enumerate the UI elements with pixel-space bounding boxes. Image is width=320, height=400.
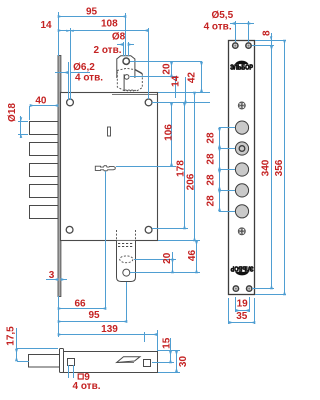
- bolt 4: [30, 185, 59, 198]
- bottom hole right: [247, 286, 252, 291]
- dim 3 arrows: [46, 279, 58, 281]
- svg-text:28: 28: [206, 132, 217, 144]
- ext line from bar top: [58, 12, 60, 56]
- dim 20 (crank): [171, 62, 173, 77]
- svg-text:ЭЛЬБОР: ЭЛЬБОР: [230, 64, 253, 71]
- plate circle 4: [235, 184, 248, 197]
- top hole right: [246, 43, 251, 48]
- dim 35 bottom: [228, 298, 230, 324]
- logo bottom (rotated): [230, 265, 253, 276]
- svg-text:139: 139: [101, 324, 118, 335]
- ext line to top-right screw: [148, 28, 150, 99]
- dim 356 line: [284, 40, 286, 295]
- side plate top ext: [17, 348, 58, 350]
- d8 hole edge lines: [123, 42, 125, 56]
- top screw ext right: [152, 102, 210, 104]
- bolt 2: [30, 143, 59, 156]
- svg-text:14: 14: [171, 75, 182, 87]
- plate circle 3: [235, 163, 248, 176]
- side bolt centre ext: [17, 361, 29, 363]
- plate circle 1: [235, 121, 248, 134]
- svg-text:356: 356: [274, 159, 285, 176]
- body inner top line: [112, 94, 158, 96]
- svg-text:15: 15: [162, 337, 173, 349]
- label square9: [78, 372, 90, 383]
- keyhole profile: [95, 166, 115, 171]
- dim 66: [58, 308, 106, 310]
- dim 30 side: [176, 351, 178, 372]
- svg-text:95: 95: [88, 310, 100, 321]
- svg-text:95: 95: [86, 6, 98, 17]
- svg-text:106: 106: [163, 124, 174, 141]
- dim 178: [184, 103, 186, 229]
- svg-text:30: 30: [178, 356, 189, 368]
- dim 14 vertical: [185, 77, 187, 103]
- chain ticks: [219, 127, 235, 129]
- svg-text:20: 20: [162, 252, 173, 264]
- svg-text:2 отв.: 2 отв.: [93, 45, 121, 56]
- screw top: [238, 102, 245, 109]
- bottom screw ext right: [152, 228, 188, 230]
- keyhole ext down: [105, 171, 107, 309]
- screw hole bottom-left: [66, 226, 73, 233]
- svg-text:108: 108: [101, 19, 118, 30]
- bottom hole left: [233, 286, 238, 291]
- dim 106: [171, 103, 173, 166]
- side exts right: [158, 350, 180, 352]
- dim 28 chain line: [219, 128, 221, 148]
- svg-text:8: 8: [261, 30, 272, 36]
- side body right ext up: [157, 330, 159, 351]
- square hole 2: [144, 360, 151, 367]
- square hole 1: [68, 359, 75, 366]
- faceplate bottom edge ext: [255, 294, 286, 296]
- svg-text:17,5: 17,5: [6, 326, 17, 346]
- latch oval ext: [134, 259, 176, 261]
- svg-text:340: 340: [261, 159, 272, 176]
- square hole ext lines: [68, 365, 70, 378]
- side bolt: [29, 355, 60, 368]
- screw bottom: [238, 228, 245, 235]
- dim 8 + dim 340 line: [271, 33, 273, 289]
- svg-text:4 отв.: 4 отв.: [204, 21, 232, 32]
- dim 139: [58, 334, 157, 336]
- svg-text:19: 19: [237, 298, 249, 309]
- bolt 5: [30, 206, 59, 219]
- hex circle line right: [130, 76, 176, 78]
- screw hole bottom-right: [145, 226, 152, 233]
- svg-text:Ø18: Ø18: [7, 103, 18, 122]
- svg-text:206: 206: [185, 173, 196, 190]
- dim 9 square ext: [144, 332, 146, 342]
- ext line screw-hole left edge: [68, 62, 70, 100]
- latch ext down: [126, 282, 128, 322]
- dim 40: [30, 105, 58, 107]
- body bottom ext right: [158, 240, 200, 242]
- svg-text:42: 42: [187, 72, 198, 84]
- key slot (small rectangle): [108, 127, 111, 136]
- crank plate (tombstone) on top: [117, 56, 135, 78]
- faceplate bottom hole ext: [252, 288, 274, 290]
- dim d6.2 leader: [55, 72, 68, 74]
- screw hole top-left: [67, 99, 74, 106]
- dim 14/108 line: [58, 30, 148, 32]
- svg-text:28: 28: [206, 153, 217, 165]
- svg-text:40: 40: [35, 95, 47, 106]
- svg-text:3: 3: [49, 270, 55, 281]
- svg-text:28: 28: [206, 195, 217, 207]
- body top ext right: [158, 92, 210, 94]
- dim 19 bottom: [235, 297, 237, 312]
- aux vertical: [175, 77, 177, 98]
- dim 15 side: [170, 338, 172, 363]
- svg-text:Ø8: Ø8: [112, 32, 126, 43]
- svg-text:20: 20: [162, 63, 173, 75]
- faceplate top edge ext: [255, 40, 286, 42]
- dim 17.5: [16, 328, 18, 361]
- svg-text:4 отв.: 4 отв.: [75, 73, 103, 84]
- lock body: [61, 93, 158, 241]
- side body: [64, 352, 158, 373]
- plate circle 5: [235, 205, 248, 218]
- dim 46: [196, 241, 198, 273]
- bolt 3: [30, 164, 59, 177]
- svg-text:66: 66: [74, 299, 86, 310]
- top hole left: [233, 43, 238, 48]
- hex block under crank plate (hidden lines): [117, 68, 142, 91]
- faceplate top hole ext: [252, 45, 274, 47]
- crank hole centre line right: [130, 61, 202, 63]
- dim 42: [201, 62, 203, 92]
- dim 20 latch: [172, 252, 174, 273]
- plate circle 2 (cylinder): [235, 142, 248, 155]
- bolt 1: [30, 122, 59, 135]
- svg-text:Ø5,5: Ø5,5: [211, 10, 233, 21]
- dim 206: [194, 92, 196, 241]
- dim 95 bottom: [58, 321, 127, 323]
- sliding shutter (parallelogram): [117, 357, 140, 363]
- side faceplate: [60, 349, 64, 373]
- latch circle ext: [130, 272, 200, 274]
- svg-text:4 отв.: 4 отв.: [72, 381, 100, 392]
- dim d18: [20, 116, 22, 138]
- latch housing below body: [117, 230, 136, 282]
- faceplate: [229, 41, 255, 295]
- svg-text:28: 28: [206, 174, 217, 186]
- svg-text:46: 46: [187, 250, 198, 262]
- keyhole ext right: [116, 166, 176, 168]
- screw hole top-right: [145, 99, 152, 106]
- dim 95 top: [58, 16, 126, 18]
- bar bottom ext down: [58, 296, 60, 337]
- faceplate d5.5 ext lines: [235, 21, 237, 42]
- svg-text:35: 35: [236, 311, 248, 322]
- ext line screw-hole centre: [70, 28, 72, 62]
- svg-text:Ø6,2: Ø6,2: [73, 62, 95, 73]
- svg-text:14: 14: [40, 20, 52, 31]
- faceplate bar (edge view, left of body): [58, 56, 61, 297]
- logo top: [230, 61, 253, 72]
